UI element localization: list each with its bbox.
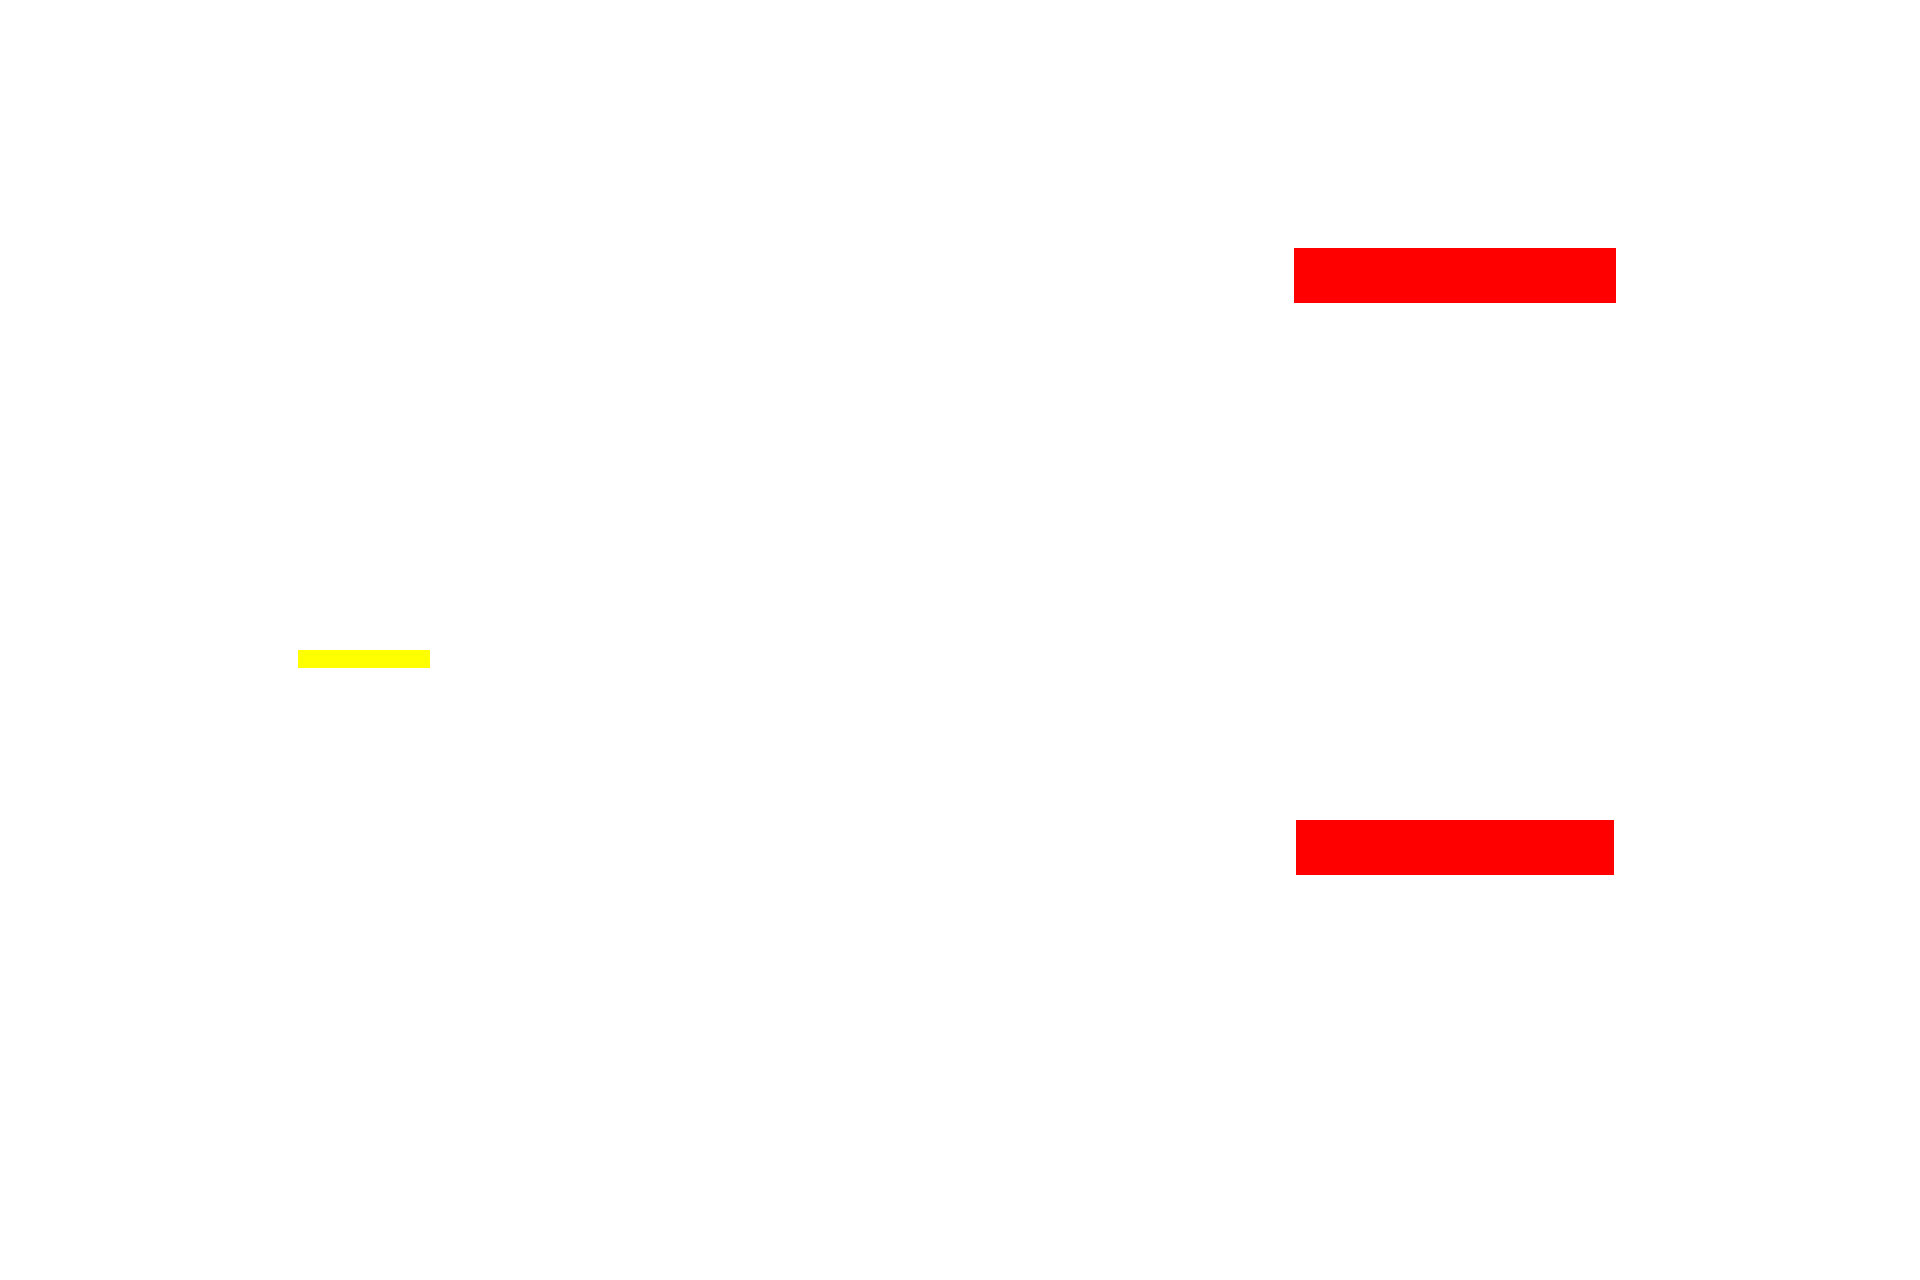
red bar top right bbox=[1294, 248, 1616, 303]
yellow bar left bbox=[298, 650, 430, 668]
red bar middle right bbox=[1296, 820, 1614, 875]
